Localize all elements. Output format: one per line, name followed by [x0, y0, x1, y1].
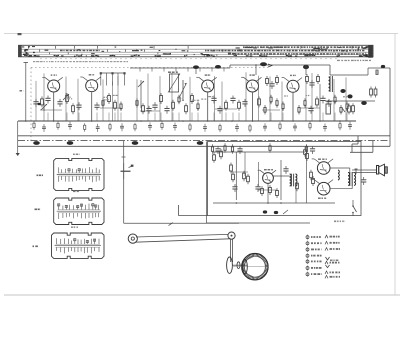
- on-off switch: [352, 200, 356, 216]
- tube V4 envelope: [241, 77, 261, 92]
- rectifier blob: [340, 89, 345, 93]
- legend row L7 text: [311, 273, 322, 275]
- audio cap 2: [283, 166, 288, 174]
- V8 label: [318, 198, 327, 199]
- loudspeaker: [377, 164, 388, 176]
- idler pulley: [128, 234, 137, 243]
- V6 plate wire: [273, 175, 289, 177]
- tube V1 envelope: [42, 77, 62, 92]
- audio resistor 5: [243, 171, 246, 181]
- legend row L2 symbol: [306, 241, 309, 246]
- bottom wiring rail: [18, 145, 390, 147]
- audio resistor 7: [261, 186, 264, 196]
- scan fold line bottom: [4, 294, 400, 296]
- legend row L6 symbol: [306, 265, 309, 270]
- legend row L3 text: [311, 249, 322, 251]
- V6 cathode lead: [267, 183, 269, 203]
- coil pack L3 divider: [55, 245, 102, 247]
- legend row L5 symbol: [306, 259, 309, 264]
- tube V5 type label: [290, 75, 296, 76]
- IF transformer T1 pins: [100, 72, 126, 85]
- audio resistor 9: [276, 188, 279, 198]
- audio resistor 6: [247, 174, 250, 184]
- legend row R5 text: [330, 272, 341, 274]
- V7 plate wire: [330, 168, 350, 172]
- choke coil 2 on B+ wire: [215, 65, 221, 69]
- audio cap 1: [232, 184, 237, 192]
- HT feed wire A: [350, 141, 373, 153]
- coil pack L3 windings: [56, 238, 101, 253]
- legend row R4 symbol: [325, 261, 328, 264]
- audio bottom rail: [213, 202, 335, 204]
- dropper resistor: [342, 104, 350, 115]
- output tube V8: [312, 180, 333, 195]
- legend row R1 text: [330, 236, 340, 238]
- bleeder pair: [370, 87, 377, 98]
- audio resistor 8: [269, 185, 272, 195]
- dial scale left end cap: [19, 45, 22, 57]
- audio resistor 14: [304, 147, 307, 157]
- chassis ground line: [18, 140, 390, 142]
- dial scale frame: [19, 45, 374, 57]
- dial scale line 2: [19, 51, 374, 53]
- tone cap: [355, 169, 358, 174]
- legend row L4 symbol: [306, 253, 309, 258]
- audio wire vert 3: [244, 152, 246, 176]
- mains lead components: [263, 210, 288, 214]
- HT feed wire B: [352, 136, 358, 153]
- caption dots under scale: [33, 61, 128, 62]
- decoupling node on B+ wire: [255, 64, 257, 75]
- drive pulley: [228, 232, 235, 239]
- caption dots under scale right: [337, 60, 371, 61]
- legend row L6 text: [311, 267, 322, 269]
- ground stub left: [16, 121, 20, 156]
- drum shaft: [233, 264, 248, 266]
- shield can 4: [197, 141, 204, 145]
- B+ wire stubs: [140, 68, 224, 72]
- tuning gear wheel: [232, 254, 269, 280]
- drum side disc: [227, 257, 233, 273]
- screen rail: [18, 135, 390, 137]
- IF transformer T2 can: [168, 72, 180, 93]
- filter cap blob: [347, 94, 352, 98]
- audio resistor 10: [296, 181, 299, 191]
- coil pack label 3: [33, 246, 38, 248]
- tube V5 cathode lead: [292, 93, 294, 121]
- dial scale lower edge: [40, 58, 340, 60]
- legend row L1 text: [311, 236, 321, 238]
- speaker feed wire 1: [352, 169, 377, 171]
- legend row L1 symbol: [306, 235, 309, 240]
- tube V3 envelope: [196, 77, 216, 92]
- cord pointer: [169, 223, 174, 226]
- V7 label: [318, 159, 327, 160]
- legend row R6 symbol: [325, 275, 328, 278]
- legend row R3 text: [330, 248, 340, 250]
- driver tube V6: [258, 170, 276, 183]
- shield dashed box left: [30, 68, 32, 144]
- tube V1 cathode lead: [53, 93, 55, 121]
- legend row R3 symbol: [325, 248, 328, 251]
- mains transformer core: [329, 76, 333, 92]
- audio resistor 3: [230, 163, 233, 174]
- legend row L3 symbol: [306, 247, 309, 252]
- component value labels row: [66, 95, 347, 101]
- antenna label: [20, 90, 24, 92]
- page mark: [18, 33, 22, 35]
- legend row R2 symbol: [325, 241, 328, 244]
- legend row R2 text: [330, 242, 340, 244]
- speaker coupling cap: [361, 177, 366, 185]
- tube V1 type label: [51, 74, 57, 75]
- output stage feed wire: [306, 145, 308, 203]
- dial scale bottom tick clusters: [24, 49, 367, 56]
- legend special symbol 1: [326, 257, 339, 261]
- audio resistor 11: [310, 170, 313, 180]
- amplifier input filter parts: [211, 143, 315, 154]
- coil pack top label 3: [71, 227, 78, 228]
- tube V3 type label: [205, 74, 211, 75]
- audio resistor 13: [306, 151, 309, 161]
- tube V3 cathode lead: [207, 93, 209, 121]
- choke coil on B+ wire: [193, 65, 199, 74]
- B+ wire right span: [230, 65, 368, 75]
- legend row L2 text: [311, 242, 322, 244]
- HT rail junctions: [25, 120, 341, 122]
- ballast resistor: [376, 65, 385, 75]
- chassis vertical left: [207, 142, 311, 224]
- audio link wire 1: [231, 171, 248, 173]
- dial scale line 3: [19, 54, 374, 56]
- shield can 2: [67, 141, 74, 145]
- grid trimmer 2: [41, 103, 47, 111]
- legend row R6 text: [330, 276, 340, 278]
- tube V4 type label: [250, 74, 255, 75]
- scan edge line right: [394, 34, 396, 296]
- can capacitor: [326, 100, 330, 114]
- coil pack L2 case: [54, 198, 104, 225]
- B+ wire left span: [130, 65, 230, 68]
- HT rail: [18, 120, 356, 122]
- supply blob right: [303, 65, 309, 75]
- aerial trimmer: [63, 93, 69, 101]
- coil pack top label 2: [73, 191, 80, 192]
- dial cord lower: [135, 239, 230, 242]
- coil pack L1 divider: [57, 174, 101, 176]
- RF/IF stage small parts row: [33, 93, 354, 115]
- legend row R1 symbol: [325, 235, 328, 238]
- coil pack label 1: [37, 175, 43, 177]
- audio wire vert 5: [295, 186, 297, 203]
- tube V2 cathode lead: [91, 92, 93, 121]
- amplifier box bottom ext: [178, 205, 207, 216]
- RF choke on B+ wire: [260, 62, 272, 67]
- padder trimmer on frame: [121, 163, 134, 179]
- dial scale graduations: [22, 46, 366, 57]
- AVC network parts: [266, 74, 320, 121]
- dial scale end markings: [23, 46, 369, 57]
- legend row R5 symbol: [325, 271, 328, 274]
- output transformer T4: [348, 172, 356, 186]
- audio resistor 12: [312, 176, 315, 186]
- row-to-rail stubs: [48, 113, 347, 122]
- legend row L5 text: [311, 261, 322, 263]
- audio resistor 4: [232, 172, 235, 182]
- small collar: [237, 262, 240, 269]
- right edge wire: [389, 68, 391, 146]
- legend row L4 text: [311, 255, 322, 257]
- amplifier chassis box: [208, 142, 362, 216]
- coil pack L1 case: [54, 158, 104, 190]
- audio wire vert 2: [280, 160, 282, 200]
- supply rail link: [325, 100, 375, 102]
- audio grid cap: [255, 184, 260, 192]
- drive shaft wires: [231, 239, 233, 262]
- V8 plate wire: [330, 186, 352, 189]
- coil pack L3 case: [52, 233, 105, 258]
- stage link wires: [40, 108, 320, 111]
- shield can 1: [33, 141, 40, 145]
- coil pack L1 windings: [58, 167, 100, 182]
- dial scale number strings: [132, 47, 327, 56]
- V6 label: [264, 169, 273, 170]
- tube V5 envelope: [282, 78, 302, 93]
- detector diode marks: [37, 103, 40, 105]
- interconnect vertical wires: [36, 72, 346, 121]
- tuning capacitor C-var: [180, 80, 187, 100]
- output tube V7: [312, 159, 333, 174]
- audio top wire: [213, 151, 305, 153]
- audio wire vert 1: [235, 152, 237, 200]
- legend row L7 symbol: [306, 272, 309, 277]
- audio resistor 1: [213, 152, 216, 163]
- model number label: [334, 221, 345, 223]
- speaker feed wire 2: [352, 172, 377, 174]
- scan fold line top: [4, 33, 398, 35]
- audio resistor 2: [220, 149, 223, 159]
- interstage transformer T3: [290, 174, 297, 187]
- coupling choke: [338, 170, 339, 180]
- dial cord upper: [136, 234, 229, 237]
- dial frame wire: [122, 141, 240, 224]
- coil pack top label 1: [73, 154, 80, 155]
- dial scale right end cap: [368, 45, 373, 57]
- dial scale line 1: [19, 48, 374, 50]
- tube V4 cathode lead: [252, 93, 254, 121]
- right edge top link: [368, 68, 390, 75]
- shield can 3: [132, 141, 139, 145]
- tube V2 type label: [89, 74, 95, 75]
- coil pack label 2: [35, 209, 41, 211]
- audio wire vert 4: [258, 162, 260, 186]
- filter cap blob 2: [361, 101, 367, 105]
- oscillator trimmer: [138, 80, 144, 108]
- coil pack L2 windings: [58, 204, 100, 220]
- antenna lead-in wire: [24, 63, 29, 122]
- decoupling parts below HT rail: [33, 121, 352, 132]
- tube V2 envelope: [80, 77, 100, 92]
- audio link wire 2: [258, 189, 277, 191]
- legend special symbol 2: [326, 265, 330, 268]
- coil pack L2 divider: [57, 210, 101, 212]
- legend row R4 text: [330, 262, 340, 264]
- shield dashed box top: [31, 67, 268, 69]
- dial scale station names: [60, 46, 364, 54]
